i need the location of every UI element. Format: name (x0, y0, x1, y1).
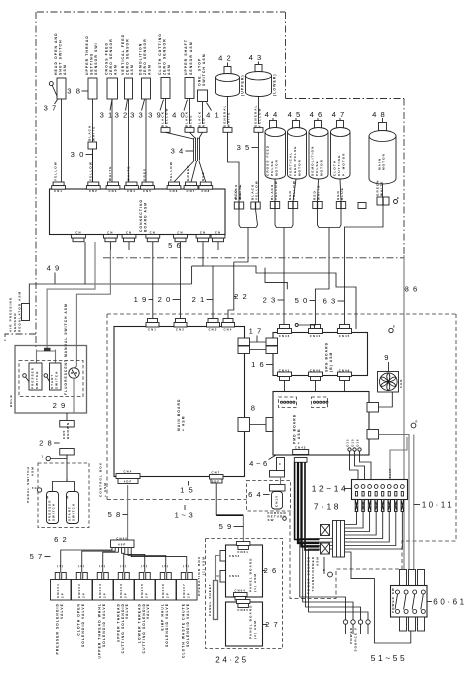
svg-text:SOLENOID VALVE: SOLENOID VALVE (102, 603, 106, 647)
label 30 (71, 150, 93, 159)
wire band seg (192, 265, 203, 267)
srg left connector CN44 (266, 338, 278, 354)
svg-text:CN: CN (215, 231, 221, 235)
svg-text:2P: 2P (123, 592, 127, 598)
panel 26 top connector (236, 542, 250, 554)
svg-text:BROWN: BROWN (66, 422, 70, 439)
label 41 (206, 103, 223, 120)
svg-text:SWITCH: SWITCH (55, 371, 59, 389)
switch S41 emg stop switch (198, 90, 208, 102)
label 42 (218, 54, 235, 67)
panel 26 bottom connector (234, 589, 248, 601)
wire 49 horizontal (29, 284, 191, 305)
text 28 colours (62, 422, 70, 439)
sensor S40 upper shaft sensor (185, 78, 194, 99)
panel 26 left connector 2 (220, 571, 240, 583)
label 33 (130, 100, 147, 120)
border machine left (35, 12, 37, 348)
svg-text:SOURCE V: SOURCE V (353, 627, 357, 651)
wire steps S3 (203, 242, 356, 329)
svg-text:FLUORESCENT MANUAL SWITCH ASM: FLUORESCENT MANUAL SWITCH ASM (64, 303, 68, 395)
svg-text:CUTTING: CUTTING (337, 155, 341, 176)
wire stub b3 (128, 242, 130, 250)
wire 29 to 28 (66, 413, 68, 421)
svg-text:POWER SW: POWER SW (391, 587, 395, 613)
svg-text:ZERO SENSOR: ZERO SENSOR (163, 38, 167, 75)
svg-text:MAIN: MAIN (377, 158, 381, 170)
label 38 (67, 87, 87, 96)
wire switches feed (47, 242, 95, 350)
text srg board (325, 342, 334, 372)
svg-text:BLACK: BLACK (160, 111, 164, 127)
svg-text:WHITE: WHITE (92, 126, 96, 141)
svg-text:+ ASM: + ASM (103, 482, 107, 497)
svg-text:ASM: ASM (315, 556, 319, 566)
connecting board 56 (50, 189, 226, 235)
label 31 (100, 100, 117, 120)
svg-text:START: START (67, 506, 71, 521)
svg-text:RED: RED (201, 171, 205, 181)
panel 26 left connector 1 (220, 551, 240, 562)
wire 23 drop (283, 228, 285, 330)
svg-text:DEMOLITION: DEMOLITION (138, 43, 142, 75)
svg-text:WHITE: WHITE (108, 166, 112, 181)
main board (114, 327, 245, 477)
wire 39 to bundle (166, 132, 194, 139)
svg-text:4DF: 4DF (124, 480, 133, 484)
connector under 43 (253, 104, 263, 132)
svg-text:ONE. STOP: ONE. STOP (198, 58, 202, 86)
terminal strip 12-14 (352, 480, 408, 500)
svg-text:4~6: 4~6 (249, 459, 270, 468)
label 34 (171, 147, 193, 156)
motor colour texts (270, 180, 344, 200)
svg-text:WHITE: WHITE (380, 181, 384, 196)
power prongs (346, 624, 369, 634)
svg-text:CLOTH OPEN: CLOTH OPEN (77, 603, 81, 636)
wire motor at 296 (293, 179, 296, 202)
label 39 (148, 100, 165, 120)
svg-text:CN43: CN43 (279, 334, 291, 338)
wire from S37 (61, 99, 63, 182)
svg-text:(6): (6) (162, 564, 169, 568)
bundle fanout to board (174, 161, 206, 183)
wire band extra (265, 268, 287, 290)
main board top connector 4 (222, 319, 235, 332)
svg-text:POWER: POWER (349, 627, 353, 644)
svg-text:CN105: CN105 (140, 583, 144, 598)
board56 bottom connector 3 (122, 231, 136, 242)
svg-text:(LOWER): (LOWER) (273, 73, 277, 96)
svg-text:GREY: GREY (143, 168, 147, 181)
earth circle 28 (42, 455, 51, 461)
label 59 (219, 522, 244, 531)
svg-text:CUTTING SOLENOID: CUTTING SOLENOID (121, 603, 125, 653)
label 64 (248, 490, 269, 499)
power switch fuses top (400, 570, 425, 586)
svg-text:ASM: ASM (130, 64, 134, 75)
label text over switch at x=61.5 (54, 32, 67, 75)
svg-text:PRESSER: PRESSER (47, 499, 51, 521)
board56 bottom connector 6 (196, 231, 210, 242)
comb nested wires (300, 512, 403, 561)
operation box dashed (206, 539, 283, 649)
svg-text:WHITE: WHITE (317, 185, 321, 200)
pmd terminals o (346, 438, 362, 451)
svg-text:SWITCH: SWITCH (72, 503, 76, 521)
main board bottom connector CN7 (210, 471, 224, 484)
forced return switch text (268, 511, 287, 522)
box64 dashed (247, 481, 291, 512)
text main board (177, 399, 186, 431)
label 57 (30, 552, 51, 561)
U-link 44/45 (275, 209, 293, 228)
svg-text:E: E (416, 420, 419, 424)
svg-text:REGULATOR ASM: REGULATOR ASM (17, 291, 21, 332)
svg-text:CN45: CN45 (339, 334, 351, 338)
svg-text:15: 15 (180, 486, 197, 495)
label 17 (249, 327, 266, 342)
svg-text:UPPER SHAFT: UPPER SHAFT (184, 39, 188, 75)
svg-text:CN61: CN61 (237, 550, 249, 554)
board56 bottom connector 7 (211, 231, 225, 242)
earth circle srg (389, 325, 396, 333)
connector motor 48 (377, 197, 383, 205)
wire from S38 (92, 99, 94, 182)
svg-text:CN106: CN106 (161, 583, 165, 598)
svg-text:PANEL BOARD: PANEL BOARD (249, 557, 253, 592)
label text over switch at x=189.5 (184, 39, 193, 75)
svg-text:(1) ASM: (1) ASM (253, 573, 257, 592)
svg-text:PULSE: PULSE (315, 160, 319, 176)
svg-text:WHITE: WHITE (227, 112, 231, 127)
srg top connector CN43 (278, 325, 292, 339)
svg-text:12~14: 12~14 (312, 484, 349, 494)
border machine left jog (5, 334, 36, 341)
pmd bottom connector CN43 (293, 446, 309, 463)
srg top connector CN42 (309, 325, 323, 339)
stray connector near 48 (358, 203, 366, 209)
label 40 (172, 100, 189, 120)
svg-text:CN65: CN65 (237, 608, 249, 612)
wire from S40 (189, 99, 191, 125)
svg-text:BULB: BULB (9, 394, 13, 407)
sensor S33 demolition zero sensor (142, 78, 151, 99)
svg-text:CONTROL BOX: CONTROL BOX (99, 462, 103, 497)
svg-text:RED: RED (336, 190, 340, 200)
srg board (273, 333, 368, 376)
svg-text:P. MOTOR: P. MOTOR (341, 152, 345, 176)
board56 bottom connector 5 (174, 231, 188, 242)
svg-text:YELLOW: YELLOW (274, 180, 278, 200)
svg-text:29: 29 (53, 401, 70, 410)
connector motor 46 (313, 202, 318, 209)
wire from S41 (202, 102, 204, 125)
label 20 (158, 295, 181, 304)
wire stub b2 (109, 242, 111, 250)
connector motor 47 (336, 202, 341, 209)
border machine top (37, 11, 285, 13)
svg-text:27: 27 (265, 620, 282, 629)
svg-text:ZERO SENSOR: ZERO SENSOR (126, 38, 130, 75)
svg-text:PRESSER: PRESSER (31, 367, 35, 389)
svg-text:SWITCH: SWITCH (35, 371, 39, 389)
svg-text:VALVE: VALVE (125, 603, 129, 619)
wire 58 (127, 485, 129, 540)
svg-text:WHITE: WHITE (127, 166, 131, 181)
svg-text:LOWER THREAD: LOWER THREAD (137, 603, 141, 643)
svg-text:BLACK: BLACK (270, 184, 274, 200)
connector 4P in 64 (270, 485, 286, 492)
text connecting board (139, 199, 148, 232)
label 35 (237, 143, 258, 152)
right chain colour text1 (234, 184, 242, 199)
svg-text:57: 57 (30, 552, 47, 561)
label text over switch at x=165.5 (158, 33, 171, 75)
svg-text:40P: 40P (118, 543, 126, 547)
border motor box right (403, 99, 405, 256)
svg-text:23: 23 (263, 296, 280, 305)
wire CN38 right (379, 435, 410, 570)
svg-text:CN4: CN4 (127, 189, 136, 193)
svg-text:CN103: CN103 (98, 583, 102, 598)
svg-text:YELLOW: YELLOW (169, 161, 173, 181)
svg-text:E: E (323, 568, 326, 572)
panel sheet wires (216, 556, 221, 581)
svg-text:ZERO SENSOR: ZERO SENSOR (143, 38, 147, 75)
svg-text:UPPER THREAD: UPPER THREAD (85, 35, 89, 75)
junction bar box29 (37, 348, 56, 363)
main board right connector CN9 (238, 418, 250, 432)
wire motor at 340 (340, 179, 341, 202)
pulse motor 4 4 (265, 110, 286, 179)
svg-text:SETTING: SETTING (90, 53, 94, 75)
svg-text:28: 28 (39, 439, 56, 448)
svg-text:BLACK: BLACK (87, 125, 91, 141)
wire 50 drop (315, 228, 329, 330)
svg-text:PMD BOARD: PMD BOARD (293, 414, 297, 444)
svg-text:CN1: CN1 (148, 328, 157, 332)
svg-text:PANEL BOARD: PANEL BOARD (249, 604, 253, 639)
wire motor at 275 (274, 179, 276, 202)
solenoid valve 2 (72, 564, 93, 647)
wire 21 (212, 266, 214, 321)
svg-text:CN: CN (200, 231, 206, 235)
label 23 (263, 296, 284, 305)
solenoid valve 6 (156, 564, 177, 647)
svg-text:34: 34 (171, 147, 188, 156)
svg-text:26: 26 (264, 566, 281, 575)
svg-text:ASM: ASM (167, 64, 171, 75)
svg-text:VALVE: VALVE (60, 603, 64, 619)
svg-text:RED: RED (288, 190, 292, 200)
wire 42 to chain (228, 132, 240, 202)
svg-text:2P: 2P (102, 592, 106, 598)
wire from S39 (165, 99, 167, 125)
text transformer (307, 556, 320, 594)
svg-text:HEAD OPEN AND: HEAD OPEN AND (54, 32, 58, 75)
board56 bottom connector 2 (104, 231, 118, 242)
svg-text:YELLOW: YELLOW (88, 161, 92, 181)
solenoid valve 3 (93, 564, 114, 659)
svg-text:VERTICAL FEED: VERTICAL FEED (121, 34, 125, 75)
board56 bottom connector 1 (72, 231, 86, 242)
control box top border (107, 313, 456, 315)
svg-text:35: 35 (237, 143, 254, 152)
svg-text:64: 64 (248, 490, 265, 499)
svg-text:(5): (5) (141, 564, 148, 568)
svg-text:GENERAL: GENERAL (222, 104, 226, 127)
svg-text:MOTOR: MOTOR (319, 159, 323, 176)
colour text above conn at 58.6 (54, 161, 58, 181)
main motor 48 (369, 110, 396, 184)
svg-text:EIHP HAUL: EIHP HAUL (161, 603, 165, 631)
colour text above conn at 131.5 (127, 166, 131, 181)
solenoid 43 body (246, 72, 272, 97)
label 36 (404, 285, 421, 294)
power switch box (391, 586, 428, 618)
junction 57 box (111, 536, 135, 547)
svg-text:CN2: CN2 (176, 328, 185, 332)
svg-text:SW: SW (268, 518, 275, 522)
panel sheet (208, 581, 218, 620)
svg-text:CN2: CN2 (89, 189, 98, 193)
box29 outer (15, 346, 87, 414)
pmd jumper block 2 (312, 397, 328, 408)
svg-text:CLOTH: CLOTH (333, 160, 337, 176)
svg-text:SHUT SWITCH: SHUT SWITCH (59, 39, 63, 75)
svg-text:2P: 2P (60, 592, 64, 598)
svg-text:SOLENOID VALVE: SOLENOID VALVE (165, 603, 169, 647)
svg-text:10·11: 10·11 (422, 500, 454, 509)
svg-text:CN: CN (126, 231, 132, 235)
cable bundle 34 (194, 138, 200, 162)
pulse motor 4 7 (331, 110, 351, 179)
svg-text:TRANSFORMER: TRANSFORMER (311, 556, 315, 591)
wire 56 to 284 line (84, 242, 86, 284)
svg-text:YELLOW: YELLOW (165, 107, 169, 127)
svg-text:62: 62 (54, 535, 71, 544)
svg-text:CN: CN (177, 231, 183, 235)
board56 bottom connector 4 (146, 231, 160, 242)
svg-text:49: 49 (47, 264, 64, 273)
wire from S31 (111, 99, 113, 182)
svg-text:CN104: CN104 (119, 583, 123, 598)
main board top connector 2 (174, 319, 187, 332)
svg-text:22: 22 (234, 292, 251, 301)
svg-text:CLOTH CUTTING: CLOTH CUTTING (158, 33, 162, 75)
pmd bottom 4P box (270, 471, 285, 478)
label 32 (115, 100, 132, 120)
connector B on wire 35 (251, 202, 256, 209)
svg-text:CN62: CN62 (229, 574, 240, 578)
svg-text:SWITCH ASM: SWITCH ASM (202, 53, 206, 86)
svg-text:17: 17 (249, 327, 266, 336)
svg-text:START: START (50, 374, 54, 389)
board56 top connector 5 (141, 182, 155, 193)
label 50 (295, 296, 316, 305)
board56 top connector 6 (167, 182, 181, 193)
svg-text:CN5: CN5 (143, 189, 152, 193)
transformer core (333, 521, 345, 558)
svg-text:CN7: CN7 (212, 471, 221, 475)
svg-text:20: 20 (158, 295, 175, 304)
board56 top connector 7 (184, 182, 198, 193)
svg-text:AIR PRESSING: AIR PRESSING (9, 297, 13, 332)
earth circle pedal (32, 486, 42, 492)
transformer earth wire (323, 557, 325, 574)
wire CN33 down (280, 477, 282, 485)
svg-text:q: q (46, 495, 49, 499)
svg-text:BLACK: BLACK (250, 184, 254, 200)
svg-text:E: E (397, 196, 400, 200)
svg-text:45: 45 (288, 110, 305, 119)
connector motor 45 (288, 202, 293, 209)
svg-text:60·61: 60·61 (433, 597, 466, 606)
wire 41 to bundle (199, 132, 203, 139)
svg-text:CN101: CN101 (56, 583, 60, 598)
wire 8 link (250, 424, 267, 426)
svg-text:(3): (3) (99, 564, 106, 568)
svg-text:BLACK: BLACK (197, 111, 201, 127)
svg-text:D15: D15 (351, 438, 355, 446)
svg-text:CN4: CN4 (224, 328, 233, 332)
label 26 (263, 566, 281, 575)
connector under S39 (160, 107, 170, 132)
svg-text:DEMOLITION: DEMOLITION (311, 146, 315, 176)
wire 59 (216, 484, 243, 542)
wire from S33 (145, 99, 147, 182)
sensor S39 cloth cutting zero sensor (161, 78, 170, 99)
svg-text:CN5: CN5 (62, 430, 66, 439)
switch S38 thread setting sensor (88, 78, 97, 99)
emg stop switch label text (198, 53, 207, 86)
svg-text:E: E (393, 325, 396, 329)
label text over switch at x=92.5 (85, 35, 98, 75)
colour text above conn at 147.5 (143, 168, 147, 181)
fan 9 (378, 372, 399, 393)
start switch 29 (44, 363, 61, 390)
solenoid 42 body (216, 74, 240, 97)
wire 19 (152, 242, 154, 321)
pedal box text (26, 466, 34, 503)
svg-text:CN4: CN4 (124, 470, 133, 474)
wire S38 contd (92, 149, 94, 182)
svg-text:CN1: CN1 (54, 189, 63, 193)
text power source (349, 627, 357, 651)
svg-text:CN3: CN3 (209, 328, 218, 332)
jumper circle srg (295, 324, 315, 329)
srg bottom connector CN41 (278, 369, 292, 381)
svg-text:(1) ASM: (1) ASM (201, 556, 205, 575)
text pmd board (293, 414, 302, 444)
label 9 (384, 353, 392, 371)
connector A on wire 35 (234, 202, 239, 209)
panel 27 top connector (236, 600, 250, 612)
svg-text:YELLOW: YELLOW (258, 107, 262, 127)
presser switch 29 (23, 363, 42, 390)
pmd right connector CN34 (367, 403, 379, 413)
svg-text:(2): (2) (78, 564, 85, 568)
svg-text:GREEN: GREEN (375, 179, 379, 196)
strip earth wires (390, 437, 407, 480)
svg-text:UPPER THREAD: UPPER THREAD (116, 603, 120, 642)
air regulator box (22, 304, 30, 321)
svg-text:2P: 2P (144, 592, 148, 598)
svg-text:16: 16 (251, 360, 268, 369)
svg-text:CROSS FEED: CROSS FEED (104, 42, 108, 75)
svg-text:WHITE: WHITE (238, 184, 242, 199)
